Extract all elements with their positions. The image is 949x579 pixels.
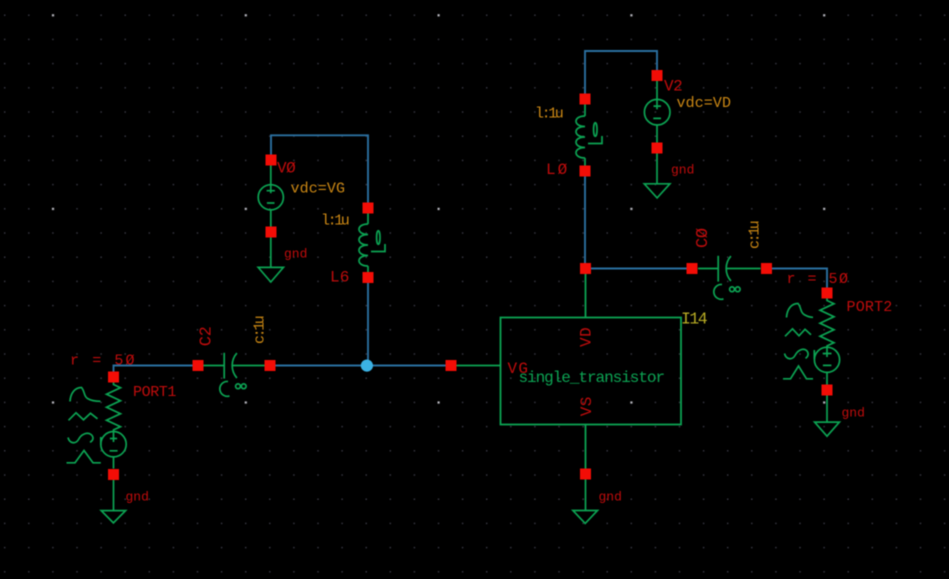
svg-text:gnd: gnd: [599, 490, 622, 505]
junction node: [361, 360, 373, 372]
pin PORT2 top: [822, 288, 833, 299]
voltage source V0: [258, 166, 283, 283]
pin L6 bottom: [363, 272, 374, 283]
svg-text:V2: V2: [664, 78, 682, 96]
pin C2 left: [193, 360, 204, 371]
pin C0 right: [761, 263, 772, 274]
svg-text:PORT1: PORT1: [133, 384, 176, 401]
inductor L0: [576, 105, 602, 166]
svg-text:vdc=VD: vdc=VD: [677, 95, 732, 112]
svg-text:L6: L6: [330, 269, 350, 287]
instance I14 single_transistor box: [457, 274, 682, 469]
wire C0 right to PORT2: [766, 269, 827, 294]
pin V2 minus: [652, 143, 663, 154]
wire L6 bottom to junction: [367, 277, 369, 366]
svg-text:VD: VD: [578, 327, 596, 347]
svg-text:r = 5Ø: r = 5Ø: [70, 353, 137, 370]
svg-text:r = 5Ø: r = 5Ø: [787, 271, 850, 288]
voltage source V2: [644, 81, 670, 198]
wire L0 top to V2 top: [585, 51, 657, 99]
pin L0 top: [580, 94, 591, 105]
svg-text:VØ: VØ: [277, 160, 296, 178]
svg-text:gnd: gnd: [671, 163, 694, 178]
capacitor C2: [203, 353, 265, 396]
svg-text:vdc=VG: vdc=VG: [291, 181, 346, 198]
pin C0 left: [687, 263, 698, 274]
port PORT2: [783, 299, 840, 437]
svg-text:l:1u: l:1u: [321, 213, 349, 230]
pin C2 right: [265, 360, 276, 371]
svg-text:single_transistor: single_transistor: [519, 369, 665, 387]
svg-text:l:1u: l:1u: [535, 106, 563, 123]
capacitor C0: [698, 256, 761, 299]
svg-text:VS: VS: [578, 396, 596, 416]
svg-text:gnd: gnd: [284, 247, 307, 262]
pin V0 plus: [266, 155, 277, 166]
pin PORT1 bottom: [108, 469, 119, 480]
wire C2 right through junction to VG pin: [270, 365, 451, 367]
pin V0 minus: [266, 227, 277, 238]
pin PORT1 top: [108, 372, 119, 383]
svg-text:c:1u: c:1u: [747, 221, 764, 249]
svg-text:gnd: gnd: [126, 490, 149, 505]
svg-text:I14: I14: [681, 310, 708, 329]
wire L0 bottom to VD node: [584, 171, 586, 269]
wire PORT1 to C2 left: [114, 366, 199, 378]
wire V0 top to L6 top: [271, 135, 368, 208]
wire VD node to C0 left: [585, 268, 692, 270]
pin V2 plus: [652, 70, 663, 81]
inductor L6: [359, 214, 385, 273]
svg-text:gnd: gnd: [842, 406, 865, 421]
svg-text:PORT2: PORT2: [847, 299, 893, 316]
pin VS gnd: [580, 469, 591, 480]
ground below VS: [573, 480, 598, 524]
svg-text:C2: C2: [198, 326, 217, 346]
svg-text:c:1u: c:1u: [252, 316, 269, 344]
port PORT1: [67, 383, 127, 523]
svg-text:LØ: LØ: [546, 161, 569, 179]
pin L6 top: [363, 203, 374, 214]
pin L0 bottom: [580, 166, 591, 177]
pin PORT2 bottom: [822, 385, 833, 396]
pin VD wire node: [580, 263, 591, 274]
pin VG wire end: [446, 360, 457, 371]
svg-text:CØ: CØ: [694, 228, 713, 248]
